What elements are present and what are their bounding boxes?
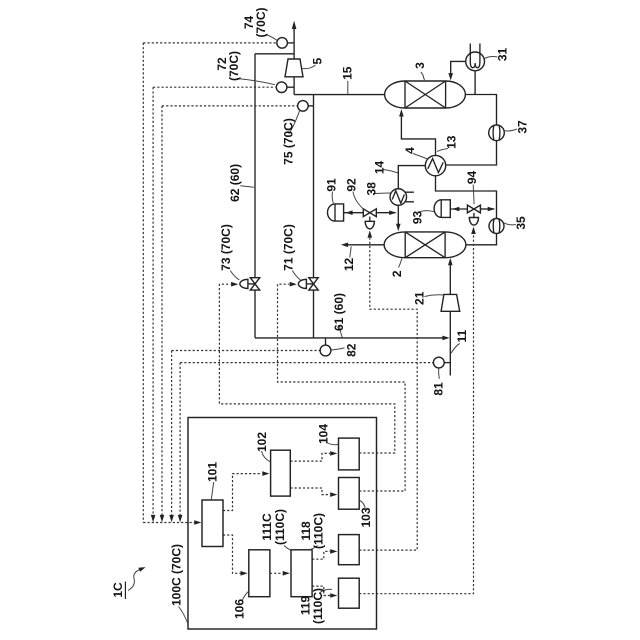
svg-text:1C: 1C	[111, 582, 125, 598]
svg-text:111C: 111C	[260, 513, 274, 541]
svg-text:92: 92	[344, 178, 358, 192]
svg-text:94: 94	[465, 171, 479, 185]
svg-text:3: 3	[413, 62, 427, 69]
svg-text:91: 91	[324, 178, 338, 192]
svg-text:21: 21	[413, 291, 427, 305]
svg-text:11: 11	[455, 330, 469, 343]
svg-text:(110C): (110C)	[312, 513, 326, 549]
svg-text:61 (60): 61 (60)	[332, 293, 346, 331]
svg-text:(70C): (70C)	[254, 7, 268, 37]
svg-text:93: 93	[411, 211, 425, 225]
svg-text:82: 82	[344, 343, 358, 357]
svg-text:(110C): (110C)	[311, 588, 325, 624]
svg-text:12: 12	[342, 258, 356, 272]
svg-text:14: 14	[372, 161, 386, 175]
svg-text:15: 15	[341, 66, 355, 80]
svg-text:(110C): (110C)	[273, 509, 287, 545]
svg-text:31: 31	[496, 48, 510, 62]
svg-text:37: 37	[516, 120, 530, 134]
svg-text:13: 13	[445, 135, 459, 149]
svg-text:62 (60): 62 (60)	[228, 164, 242, 202]
svg-text:35: 35	[514, 216, 528, 230]
svg-text:106: 106	[232, 599, 246, 619]
svg-text:101: 101	[206, 462, 220, 482]
svg-text:75 (70C): 75 (70C)	[281, 118, 295, 165]
svg-text:5: 5	[311, 58, 325, 65]
svg-text:73 (70C): 73 (70C)	[219, 224, 233, 271]
svg-text:(70C): (70C)	[227, 51, 241, 81]
svg-text:102: 102	[255, 432, 269, 452]
svg-text:103: 103	[359, 507, 373, 527]
svg-text:71 (70C): 71 (70C)	[282, 224, 296, 271]
svg-text:4: 4	[403, 147, 417, 154]
svg-text:100C (70C): 100C (70C)	[169, 544, 183, 606]
svg-text:81: 81	[432, 382, 446, 396]
svg-text:38: 38	[364, 182, 378, 196]
svg-text:2: 2	[390, 270, 404, 277]
svg-text:104: 104	[317, 424, 331, 444]
